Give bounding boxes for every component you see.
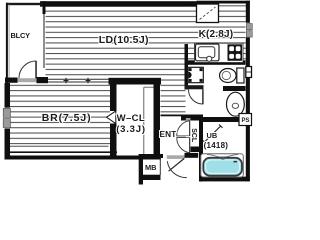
- UB top wall: [203, 117, 246, 122]
- entrance side wall: [185, 153, 199, 158]
- BR left wall lower: [5, 128, 11, 159]
- bathtub handle: [234, 161, 238, 163]
- svg-text:PS: PS: [242, 118, 250, 124]
- washroom left wall: [185, 61, 189, 90]
- svg-text:(1418): (1418): [204, 141, 229, 150]
- balcony divider wall top: [43, 1, 46, 14]
- kitchen left wall stub: [185, 44, 189, 61]
- UB diagonal door: [205, 126, 221, 142]
- washroom door leaf: [202, 89, 203, 104]
- fridge space square: [197, 4, 219, 23]
- W-CL top wall: [109, 78, 162, 85]
- entrance threshold: [167, 155, 185, 159]
- ENT corner wall: [181, 115, 203, 121]
- corridor step line: [161, 115, 182, 117]
- svg-text:MB: MB: [145, 163, 157, 172]
- corner wall block LD/BR: [37, 77, 49, 83]
- stove: [228, 44, 243, 61]
- sink faucet circle: [207, 56, 212, 61]
- svg-text:ENT: ENT: [160, 130, 177, 139]
- MB right line: [160, 157, 161, 175]
- sliding handle plus 2: [86, 80, 91, 82]
- fridge diagonal dashed: [200, 7, 216, 20]
- under-counter wall: [188, 60, 246, 65]
- W-CL left wall upper: [110, 85, 117, 112]
- bottom outer wall: [5, 156, 162, 160]
- SCL closet box: [191, 121, 200, 147]
- balcony door arc: [19, 61, 36, 78]
- sliding handle plus 1: [64, 80, 69, 82]
- W-CL inner closet line: [144, 87, 154, 155]
- kitchen counter outline: [195, 43, 244, 62]
- washer drain semicircle: [188, 72, 191, 78]
- BR left wall upper: [5, 83, 11, 108]
- washbasin: [227, 92, 245, 116]
- corridor flooring stripes: [161, 78, 186, 115]
- kitchen flooring stripes: [186, 7, 246, 61]
- svg-text:BR(7.5J): BR(7.5J): [42, 112, 92, 124]
- W-CL right wall: [154, 85, 161, 160]
- svg-text:UB: UB: [207, 131, 218, 140]
- porch left wall: [139, 154, 143, 185]
- kitchen counter sink unit: [196, 44, 220, 61]
- bathtub deck: [201, 154, 244, 177]
- SCL door track: [186, 118, 191, 153]
- sink bowl: [198, 47, 215, 58]
- svg-text:(3.3J): (3.3J): [116, 124, 146, 135]
- entrance door leaf: [169, 158, 185, 171]
- svg-text:K(2.8J): K(2.8J): [199, 29, 234, 40]
- W-CL door triangle: [107, 111, 116, 124]
- washing machine pan: [188, 67, 204, 82]
- top wall thick segment: [40, 1, 197, 7]
- kitchen window on right wall: [246, 23, 250, 38]
- svg-text:BLCY: BLCY: [11, 31, 31, 40]
- balcony door leaf: [35, 61, 37, 79]
- bathtub: [203, 158, 242, 176]
- balcony top wall: [6, 3, 43, 5]
- BR interior bottom line: [10, 145, 109, 147]
- balcony bottom wall: [5, 78, 18, 83]
- bottom wall bath block: [199, 177, 250, 182]
- balcony window sash: [43, 14, 45, 68]
- BR flooring stripes: [10, 84, 110, 147]
- UB left wall: [199, 121, 203, 182]
- toilet-bottom wall: [223, 86, 246, 91]
- bathtub faucet mark: [221, 157, 224, 160]
- PS box: [239, 114, 252, 126]
- washbasin drain: [232, 103, 238, 108]
- LD-BR sliding partition lines: [48, 78, 109, 80]
- stove burners: [229, 46, 234, 51]
- top wall thin segment over kitchen: [197, 1, 250, 4]
- right wall: [246, 1, 250, 182]
- toilet tank: [237, 68, 244, 83]
- bathtub inner line: [206, 160, 240, 173]
- SCL bifold door leaf upper: [177, 121, 190, 136]
- SCL bottom wall block: [189, 147, 200, 153]
- BR bottom wall inner line: [5, 151, 118, 153]
- balcony left inner rail line: [8, 4, 11, 77]
- washroom door arc: [188, 90, 202, 105]
- toilet vent box on wall: [246, 67, 252, 78]
- balcony door threshold: [18, 78, 37, 82]
- washer-bottom wall: [185, 85, 204, 89]
- SCL bifold door leaf lower: [177, 138, 190, 153]
- entrance door arc: [167, 161, 187, 177]
- svg-text:W–CL: W–CL: [117, 113, 146, 124]
- W-CL left wall lower: [110, 124, 117, 160]
- balcony left wall: [6, 3, 8, 83]
- washer corner feet: [189, 68, 192, 71]
- svg-text:LD(10.5J): LD(10.5J): [99, 34, 149, 46]
- SCL track gap: [186, 136, 191, 137]
- svg-text:SCL: SCL: [190, 128, 197, 143]
- bathtub deck dip curve: [207, 154, 238, 157]
- BR window sashes: [3, 108, 10, 117]
- toilet bowl inner: [222, 71, 230, 79]
- LD flooring stripes: [46, 7, 186, 78]
- toilet bowl: [220, 69, 237, 83]
- MB bottom wall: [143, 175, 161, 180]
- ENT bottom wall: [139, 154, 163, 158]
